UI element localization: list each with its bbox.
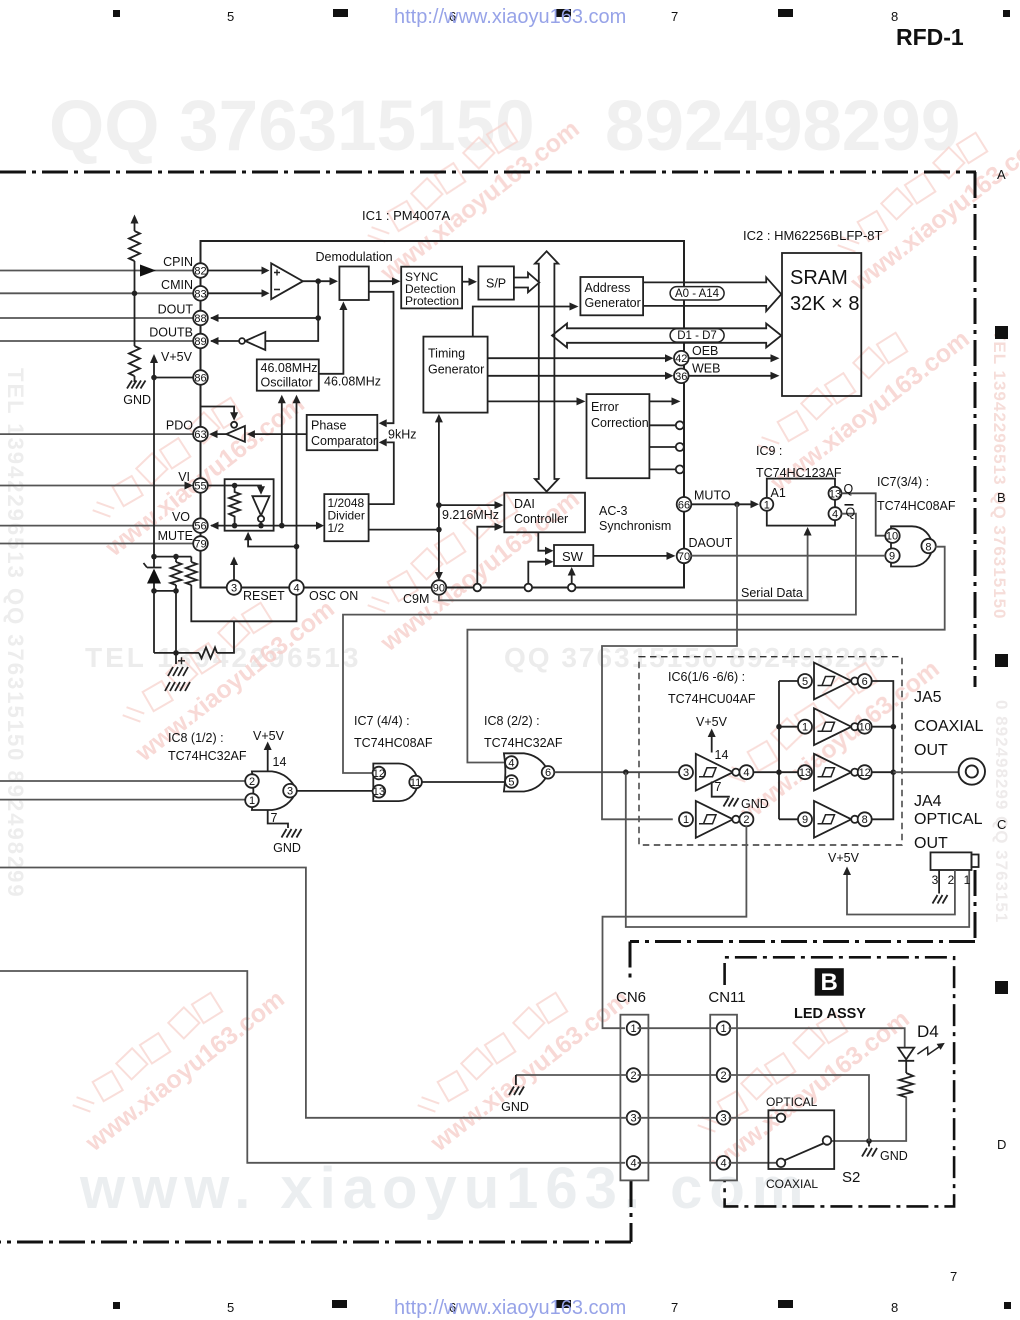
svg-text:7: 7: [715, 780, 722, 794]
wire IC6 node down to CN and optical: [626, 772, 969, 927]
VI arrow into pin55: [185, 482, 194, 490]
junction stub to DAI lower input: [474, 584, 482, 592]
pin 42: [674, 351, 689, 366]
S/P box: [478, 266, 514, 299]
svg-text:10: 10: [886, 531, 898, 543]
svg-text:70: 70: [678, 551, 690, 563]
inverter U-b (DOUTB): [245, 332, 265, 350]
DAI controller box: [504, 493, 585, 533]
pin 13: [373, 785, 386, 798]
stub bus to pin5: [779, 680, 798, 682]
wire pin83 to comparator: [208, 292, 262, 294]
stub bus to pin9: [779, 818, 798, 820]
svg-text:63: 63: [194, 429, 206, 441]
JA5 coaxial connector: [959, 758, 985, 784]
wire osc feed A: [281, 403, 283, 526]
svg-text:IC1 : PM4007A: IC1 : PM4007A: [362, 208, 450, 223]
svg-text:2: 2: [948, 873, 955, 887]
wire driver out to JA5: [893, 771, 958, 773]
resistor R-f in cell: [229, 486, 240, 526]
svg-text:89: 89: [194, 336, 206, 348]
svg-text:9: 9: [802, 814, 808, 826]
node rail bottom: [151, 554, 157, 560]
svg-text:1: 1: [964, 873, 971, 887]
ground: [127, 381, 146, 389]
pin 56: [193, 518, 208, 533]
svg-text:TEL 13942296513 QQ 376315150: TEL 13942296513 QQ 376315150 892498299: [3, 368, 28, 899]
wire MUTO to IC9 A1: [691, 503, 750, 505]
wire DOUTB from left edge: [0, 340, 193, 342]
svg-text:Protection: Protection: [405, 294, 459, 308]
svg-text:S2: S2: [842, 1169, 860, 1186]
driver output bus: [871, 681, 893, 819]
wire DAI to SW: [538, 532, 545, 550]
svg-text:7: 7: [671, 9, 678, 24]
pin 9: [885, 548, 899, 562]
svg-text:B: B: [997, 490, 1006, 505]
wire VO row: [211, 525, 316, 527]
svg-text:9.216MHz: 9.216MHz: [442, 508, 499, 522]
svg-text:OPTICAL: OPTICAL: [914, 811, 983, 828]
svg-text:8: 8: [891, 1300, 898, 1315]
S2 optical contact: [777, 1114, 786, 1123]
pin 4 IC9: [829, 507, 842, 520]
SRAM box: [782, 253, 861, 396]
svg-text:8: 8: [925, 542, 931, 554]
pin 88: [193, 311, 208, 326]
svg-text:3: 3: [630, 1113, 636, 1125]
IC8(1/2) OR gate: [252, 771, 297, 810]
wire timing to error correction: [488, 400, 577, 402]
svg-text:13: 13: [799, 767, 811, 779]
timing generator box: [423, 337, 487, 413]
IC9 box: [767, 479, 835, 526]
wire input A to IC8(1/2) pin2: [0, 780, 245, 782]
svg-text:36: 36: [675, 371, 687, 383]
svg-text:12: 12: [373, 768, 385, 780]
oscillator 46.08MHz box: [257, 359, 319, 390]
pin 12: [373, 767, 386, 780]
pin 55: [193, 478, 208, 493]
IC6 inverter 1-2: [679, 812, 693, 826]
pin 1: [245, 794, 259, 808]
pin 66 MUTO: [677, 497, 692, 512]
svg-text:LED ASSY: LED ASSY: [794, 1006, 866, 1022]
svg-text:TC74HC32AF: TC74HC32AF: [484, 736, 563, 750]
pin 8: [921, 539, 935, 553]
svg-text:Demodulation: Demodulation: [316, 250, 393, 264]
wire pin8 long run to IC8(2/2) pin4: [467, 547, 944, 763]
svg-text:4: 4: [743, 767, 749, 779]
phase comparator box: [307, 415, 378, 450]
wire demod to SYNC: [369, 280, 392, 282]
wire error corr out 4: [649, 468, 675, 470]
pin 11: [409, 776, 422, 789]
svg-text:1: 1: [802, 722, 808, 734]
svg-text:TC74HC32AF: TC74HC32AF: [168, 749, 247, 763]
wire Q to IC7 pin10: [842, 493, 886, 535]
resistor R-e horizontal: [199, 647, 217, 658]
wire IC7(4/4) out to IC8(2/2) pin5: [422, 781, 505, 783]
svg-text:QQ 376315150: QQ 376315150: [49, 87, 535, 166]
wire LED cathode to switch common: [831, 1097, 906, 1142]
IC7(4/4) AND gate: [373, 764, 417, 802]
input tag arrow on CPIN: [140, 265, 156, 277]
pin 63: [193, 427, 208, 442]
svg-text:MUTO: MUTO: [694, 489, 731, 503]
svg-text:1: 1: [630, 1023, 636, 1035]
pin 86: [193, 370, 208, 385]
stub bus to pin1: [779, 726, 798, 728]
svg-text:V+5V: V+5V: [161, 350, 193, 364]
svg-text:GND: GND: [273, 841, 301, 855]
svg-text:TEL 13942296513: TEL 13942296513: [85, 642, 361, 673]
svg-text:C: C: [997, 817, 1006, 832]
svg-text:GND: GND: [741, 797, 769, 811]
node V+5V / pin86 stub: [151, 375, 157, 381]
pin 3 RESET arrow: [233, 564, 235, 580]
LED D4: [898, 1048, 914, 1060]
wire CN6.3 row from left: [638, 1117, 717, 1119]
svg-text:CMIN: CMIN: [161, 278, 193, 292]
wire timing OEB to pin42: [488, 357, 665, 359]
svg-text:GND: GND: [123, 393, 151, 407]
boundary bottom: [0, 1241, 631, 1244]
svg-text:V+5V: V+5V: [696, 715, 728, 729]
wire cap row: [154, 652, 199, 654]
svg-text:3: 3: [932, 873, 939, 887]
pin 10: [885, 529, 899, 543]
optical connector JA4: [931, 852, 972, 870]
junction stub to SW input: [525, 584, 533, 592]
svg-text:32K × 8: 32K × 8: [790, 293, 860, 315]
wire node row 590.9: [154, 590, 176, 592]
svg-text:COAXIAL: COAXIAL: [766, 1177, 818, 1191]
pin numbers: [194, 266, 690, 595]
wire branch down to CN6 pin1: [603, 917, 626, 1028]
svg-text:CN11: CN11: [708, 989, 745, 1006]
S2 lever: [785, 1144, 823, 1161]
junction stub to SW bottom: [568, 584, 576, 592]
wire inverter out to pin63: [216, 433, 226, 435]
wire R-e to pin4 net: [217, 621, 234, 653]
wire feedback vertical: [265, 281, 318, 341]
svg-text:1: 1: [720, 1023, 726, 1035]
svg-text:Error: Error: [591, 400, 619, 414]
wire CN11.2 to LED cathode node: [729, 1075, 869, 1141]
wire oscillator to demod 46.08MHz: [319, 310, 344, 374]
open bus arrow A0-A14 to SRAM: [643, 277, 781, 311]
svg-text:42: 42: [675, 353, 687, 365]
svg-text:SRAM: SRAM: [790, 267, 848, 289]
pin 89: [193, 334, 208, 349]
wire pin42 to SRAM: [689, 357, 771, 359]
error correction box: [587, 394, 650, 478]
svg-text:IC9 :: IC9 :: [756, 444, 782, 458]
svg-text:6: 6: [862, 676, 868, 688]
IC8(2/2) OR gate: [504, 753, 549, 791]
svg-text:10: 10: [859, 722, 871, 734]
svg-text:IC8 (2/2) :: IC8 (2/2) :: [484, 714, 540, 728]
svg-text:D1 - D7: D1 - D7: [677, 330, 717, 342]
comparator U-a: [271, 263, 303, 299]
IC6 inverter 5-6: [798, 674, 812, 688]
optical pin3 GND: [938, 870, 940, 894]
pin 4: [505, 756, 518, 769]
svg-text:3: 3: [231, 583, 237, 595]
svg-text:GND: GND: [880, 1149, 908, 1163]
svg-text:B: B: [821, 969, 838, 996]
svg-text:OPTICAL: OPTICAL: [766, 1095, 818, 1109]
svg-text:88: 88: [194, 313, 206, 325]
net label capsule A0 - A14: [670, 287, 724, 300]
svg-text:8: 8: [862, 814, 868, 826]
svg-text:7: 7: [271, 811, 278, 825]
svg-text:V+5V: V+5V: [828, 851, 860, 865]
wire C9M to DAI: [439, 504, 495, 506]
svg-text:COAXIAL: COAXIAL: [914, 718, 983, 735]
wire pin4 out to driver bus: [753, 771, 798, 773]
resistor R-b: [129, 346, 140, 376]
svg-text:OEB: OEB: [692, 344, 718, 358]
boundary bottom-right: [630, 940, 975, 943]
GND IC8(1/2) pin7: [268, 811, 288, 829]
open arrow S/P to bus: [514, 273, 539, 293]
svg-text:S/P: S/P: [486, 277, 506, 291]
svg-text:TC74HC08AF: TC74HC08AF: [354, 736, 433, 750]
pin 3: [227, 580, 242, 595]
svg-text:IC8 (1/2) :: IC8 (1/2) :: [168, 731, 224, 745]
wire divider 9kHz to phase comparator: [369, 442, 394, 504]
svg-text:1: 1: [764, 499, 770, 511]
wire PDO from left edge: [0, 433, 193, 435]
svg-text:9: 9: [889, 550, 895, 562]
svg-text:1: 1: [683, 814, 689, 826]
svg-text:3: 3: [287, 786, 293, 798]
boundary jog at CN6 top: [629, 942, 632, 980]
wire DOUT return: [211, 317, 318, 319]
svg-text:www. xiaoyu163. com: www. xiaoyu163. com: [79, 1156, 810, 1221]
IC6 V+5V arrow pin14: [711, 734, 713, 753]
svg-text:PDO: PDO: [166, 419, 193, 433]
svg-text:56: 56: [194, 521, 206, 533]
wire to ground: [134, 376, 136, 382]
pin 4: [289, 580, 304, 595]
wire pin36 to SRAM: [689, 375, 771, 377]
wire VO from left edge: [0, 525, 193, 527]
resistor chain pull-up: top arrow: [134, 222, 136, 231]
zener diode D: [144, 563, 162, 568]
wire phase comp to inverter: [254, 433, 307, 435]
svg-text:83: 83: [194, 288, 206, 300]
net label capsule D1 - D7: [670, 329, 724, 342]
pin 79: [193, 536, 208, 551]
svg-text:4: 4: [832, 509, 838, 521]
wire CN6.2 GND net from left: [0, 868, 627, 1118]
svg-text:86: 86: [194, 373, 206, 385]
wire CN6.1 to CN11.1: [638, 1027, 717, 1029]
IC6 inverter 1-10: [798, 720, 812, 734]
svg-text:MUTE: MUTE: [158, 529, 193, 543]
pin 6: [542, 766, 555, 779]
wire Qbar long run to IC7(4/4) pin12: [343, 514, 856, 773]
wire timing to address generator: [473, 307, 570, 337]
svg-text:79: 79: [194, 539, 206, 551]
IC1 box: [201, 241, 685, 588]
PDO control inverter U-c: [201, 407, 235, 414]
wire MUTO long run to IC6 pin1: [602, 504, 737, 819]
svg-text:46.08MHz: 46.08MHz: [324, 375, 381, 389]
svg-text:RFD-1: RFD-1: [896, 24, 964, 50]
svg-text:CPIN: CPIN: [163, 255, 193, 269]
svg-text:4: 4: [720, 1158, 726, 1170]
svg-text:A0 - A14: A0 - A14: [675, 288, 720, 300]
svg-text:Oscillator: Oscillator: [261, 376, 313, 390]
svg-text:Generator: Generator: [428, 363, 484, 377]
resistor R-led: [899, 1073, 913, 1097]
svg-text:4: 4: [508, 757, 514, 769]
svg-text:7: 7: [671, 1300, 678, 1315]
svg-text:SW: SW: [562, 549, 584, 564]
junction CMIN/resistor chain: [132, 291, 138, 297]
svg-text:2: 2: [630, 1070, 636, 1082]
S2 coaxial contact: [777, 1159, 786, 1168]
wire error corr out 3: [649, 446, 675, 448]
svg-text:IC7(3/4) :: IC7(3/4) :: [877, 475, 929, 489]
svg-text:1/2: 1/2: [328, 521, 345, 535]
svg-text:VO: VO: [172, 510, 190, 524]
wire VI from left edge: [0, 485, 185, 487]
boundary top: [0, 171, 976, 174]
wire rail bottom horizontal: [154, 556, 191, 558]
svg-text:Q: Q: [844, 482, 854, 496]
svg-text:6: 6: [545, 767, 551, 779]
svg-text:JA4: JA4: [914, 793, 942, 810]
wire pin55 into cell: [208, 486, 261, 489]
resistor R-a: [129, 231, 140, 261]
wire MUTE from left edge: [0, 543, 193, 545]
svg-text:3: 3: [720, 1113, 726, 1125]
pin 2: [245, 774, 259, 788]
open bus arrow D1-D7 bidirectional: [552, 324, 781, 348]
wire DOUT from left edge: [0, 317, 193, 319]
CN6 connector box: [620, 1015, 648, 1181]
svg-text:14: 14: [715, 748, 729, 762]
svg-text:5: 5: [802, 676, 808, 688]
wire IC6 pin2 feedback link: [626, 826, 747, 917]
svg-text:0 892498299 QQ 3763151: 0 892498299 QQ 3763151: [992, 700, 1011, 923]
pin 36: [674, 369, 689, 384]
svg-text:Comparator: Comparator: [311, 434, 377, 448]
wire serial data C9M to IC9: [439, 534, 808, 600]
svg-text:DAI: DAI: [514, 497, 535, 511]
boundary jog at CN6 bottom: [630, 1181, 633, 1242]
svg-text:V+5V: V+5V: [253, 729, 285, 743]
pin 83: [193, 286, 208, 301]
svg-text:46.08MHz: 46.08MHz: [261, 361, 318, 375]
svg-text:D: D: [997, 1137, 1006, 1152]
V+5V arrow IC8(1/2) pin14: [267, 746, 269, 771]
capacitor C electrolytic to ground: [175, 653, 177, 664]
svg-text:CN6: CN6: [616, 989, 646, 1006]
divider 1/2048 box: [324, 494, 368, 541]
svg-text:2: 2: [249, 776, 255, 788]
address generator box: [580, 277, 643, 315]
IC7(3/4) AND gate: [891, 526, 932, 566]
wire CN6.2 to CN11.2: [638, 1074, 717, 1076]
CN11 connector box: [710, 1015, 737, 1181]
IC6 inverter 9-8: [798, 812, 812, 826]
svg-text:IC2 : HM62256BLFP-8T: IC2 : HM62256BLFP-8T: [743, 228, 883, 243]
pin 82: [193, 263, 208, 278]
svg-text:http://www.xiaoyu163.com: http://www.xiaoyu163.com: [394, 6, 626, 28]
svg-text:DOUT: DOUT: [158, 303, 194, 317]
svg-text:D4: D4: [917, 1022, 939, 1041]
svg-text:A: A: [997, 167, 1006, 182]
wire CN6.4 row from left: [0, 971, 625, 1163]
svg-text:Timing: Timing: [428, 347, 465, 361]
wire chain mid: [134, 261, 136, 346]
B badge: [815, 968, 844, 996]
resistor R-d: [190, 557, 192, 562]
svg-text:RESET: RESET: [243, 589, 285, 603]
svg-text:Address: Address: [585, 281, 631, 295]
wire comparator output to demodulation: [303, 280, 330, 282]
wire R-d to OSC ON pin 4: [191, 585, 296, 621]
top registration squares: [113, 10, 120, 17]
wire SYNC to S/P: [462, 281, 468, 283]
V+5V rail arrow: [153, 362, 155, 568]
svg-text:2: 2: [743, 814, 749, 826]
svg-text:Controller: Controller: [514, 512, 568, 526]
S2 common contact: [823, 1136, 832, 1145]
svg-text:IC7 (4/4) :: IC7 (4/4) :: [354, 714, 410, 728]
IC6 GND pin7: [712, 782, 730, 797]
svg-text:12: 12: [859, 767, 871, 779]
svg-text:Synchronism: Synchronism: [599, 519, 671, 533]
SW box: [554, 545, 593, 566]
svg-text:OUT: OUT: [914, 742, 948, 759]
wire SW to pin70: [593, 555, 666, 557]
wire osc feed B / OSC ON: [296, 403, 298, 547]
svg-text:WEB: WEB: [692, 362, 720, 376]
optical pin2 to V+5V: [847, 870, 955, 915]
IC6 dashed outline: [639, 657, 902, 845]
svg-text:TC74HCU04AF: TC74HCU04AF: [668, 692, 756, 706]
svg-text:90: 90: [433, 583, 445, 595]
big vertical bus arrow: [535, 251, 558, 491]
svg-text:AC-3: AC-3: [599, 504, 628, 518]
svg-text:5: 5: [227, 1300, 234, 1315]
svg-text:OSC ON: OSC ON: [309, 589, 358, 603]
svg-text:3: 3: [683, 767, 689, 779]
svg-text:A1: A1: [771, 486, 786, 500]
svg-text:Generator: Generator: [585, 296, 641, 310]
wire timing WEB to pin36: [488, 375, 665, 377]
resistor R-c: [175, 557, 177, 562]
wire down to cap row: [154, 591, 176, 653]
pin 5: [505, 775, 518, 788]
driver input bus: [778, 681, 780, 819]
svg-text:DOUTB: DOUTB: [149, 326, 193, 340]
GND at switch common: [868, 1141, 870, 1147]
svg-text:5: 5: [227, 9, 234, 24]
boundary right: [974, 172, 977, 687]
svg-text:TC74HC08AF: TC74HC08AF: [877, 499, 956, 513]
pin 13 IC9: [829, 487, 842, 500]
svg-text:Phase: Phase: [311, 419, 346, 433]
svg-text:4: 4: [293, 583, 299, 595]
